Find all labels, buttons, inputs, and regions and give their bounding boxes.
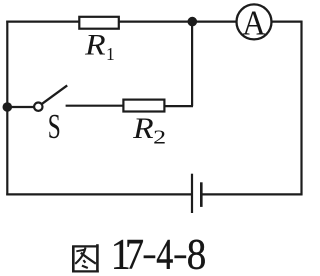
label R2 [132,112,166,149]
caption character 图 (drawn strokes) [72,244,99,272]
wire: top horizontal (left corner to ammeter) [6,21,236,23]
label R1 [84,29,115,64]
wire: bottom horizontal (left corner to battery) [6,193,192,195]
label S [48,108,61,146]
svg-text:7: 7 [125,231,144,276]
wire: right vertical side of outer loop [300,21,302,196]
wire: bottom horizontal (battery to right corner) [201,193,302,195]
svg-text:R: R [84,29,106,62]
switch S (pivot circle and open lever) [34,85,67,111]
wire: left vertical side of outer loop [6,21,8,196]
svg-text:S: S [48,108,61,146]
svg-text:2: 2 [153,127,166,149]
resistor R1 (box) [79,17,119,29]
wire: horizontal from R2 right end to vertical branch [165,105,193,107]
node: junction dot on left wire at switch branch [3,102,13,112]
battery cell: short plate (negative) [200,182,203,207]
svg-text:4: 4 [156,231,173,276]
svg-text:R: R [132,112,154,145]
battery cell: long plate (positive) [191,174,193,213]
svg-text:A: A [242,3,266,42]
resistor R2 (box) [123,100,164,112]
wire: from left-wire junction to switch [7,106,34,108]
node: junction dot on top wire [188,17,198,27]
wire: from switch fixed contact to R2 [66,105,123,107]
ammeter A (circle) [237,3,272,42]
wire: top horizontal (ammeter to right corner) [271,21,302,23]
svg-text:1: 1 [106,44,115,64]
caption text 17-4-8 [111,231,206,276]
svg-text:8: 8 [187,231,207,276]
wire: vertical branch from junction down to R2 [191,22,193,107]
